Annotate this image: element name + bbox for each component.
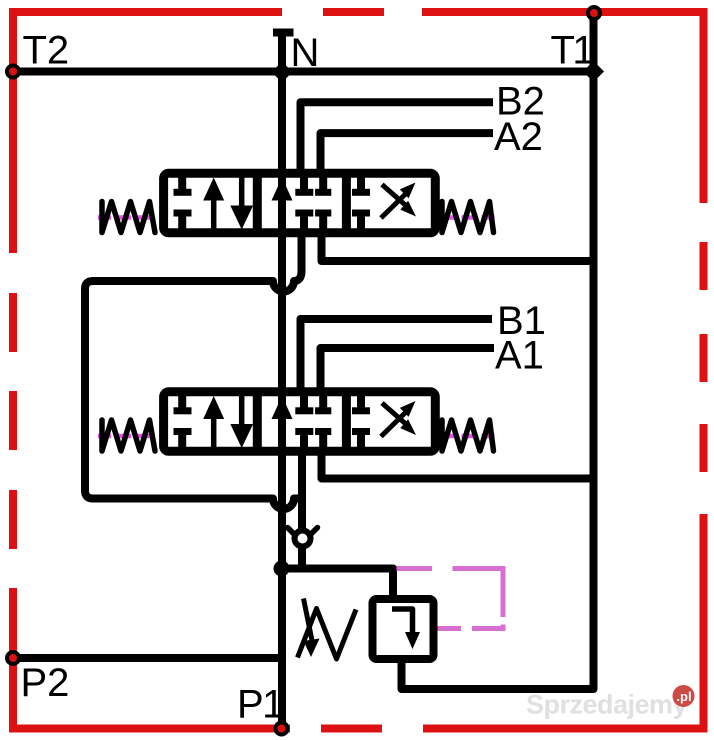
svg-text:A1: A1 bbox=[495, 334, 544, 378]
svg-text:.pl: .pl bbox=[676, 689, 691, 704]
svg-text:P2: P2 bbox=[21, 661, 70, 705]
svg-text:A2: A2 bbox=[494, 115, 543, 159]
svg-text:Sprzedajemy: Sprzedajemy bbox=[526, 690, 688, 720]
svg-text:N: N bbox=[291, 31, 320, 75]
svg-text:T1: T1 bbox=[551, 29, 594, 73]
svg-text:P1: P1 bbox=[237, 683, 283, 727]
svg-text:T2: T2 bbox=[23, 29, 70, 73]
